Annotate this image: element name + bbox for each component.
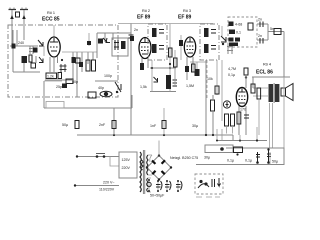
svg-text:Rö 3: Rö 3	[183, 9, 191, 13]
svg-text:1nF: 1nF	[150, 124, 157, 128]
svg-text:2n: 2n	[258, 18, 262, 22]
svg-text:2nF: 2nF	[99, 123, 106, 127]
svg-text:30µ: 30µ	[192, 124, 198, 128]
svg-text:100p: 100p	[104, 74, 112, 78]
svg-text:40p: 40p	[98, 86, 104, 90]
svg-text:0,1: 0,1	[236, 31, 241, 35]
svg-text:50µ: 50µ	[272, 160, 278, 164]
svg-text:10k: 10k	[207, 77, 213, 81]
svg-text:50µ: 50µ	[62, 123, 68, 127]
svg-text:1,5M: 1,5M	[186, 84, 194, 88]
svg-text:0,1µ: 0,1µ	[228, 73, 235, 77]
svg-text:Rö 1: Rö 1	[47, 11, 55, 15]
svg-text:240: 240	[18, 41, 24, 45]
svg-text:0,1µ: 0,1µ	[227, 159, 234, 163]
svg-text:EF 89: EF 89	[178, 15, 192, 21]
svg-text:110/220V: 110/220V	[99, 188, 115, 192]
svg-text:125V: 125V	[122, 158, 131, 162]
svg-text:220 V~: 220 V~	[103, 181, 115, 185]
svg-text:5n: 5n	[270, 27, 274, 31]
svg-text:4,7M: 4,7M	[228, 67, 236, 71]
svg-text:ECL 86: ECL 86	[256, 70, 273, 76]
svg-text:ECC 85: ECC 85	[42, 17, 60, 23]
svg-text:1,2k: 1,2k	[47, 75, 54, 79]
svg-text:Rö 4: Rö 4	[263, 63, 271, 67]
svg-text:25p: 25p	[56, 85, 62, 89]
svg-text:0,1µ: 0,1µ	[245, 159, 252, 163]
svg-text:220V: 220V	[122, 166, 131, 170]
svg-text:4-68: 4-68	[235, 23, 242, 27]
svg-text:2n: 2n	[134, 28, 138, 32]
svg-text:170: 170	[240, 108, 246, 112]
svg-text:30µ: 30µ	[204, 156, 210, 160]
svg-text:Rö 2: Rö 2	[142, 9, 150, 13]
svg-text:Netzgl. B250 C75: Netzgl. B250 C75	[170, 156, 198, 160]
svg-text:2n: 2n	[258, 34, 262, 38]
svg-text:EF 89: EF 89	[137, 15, 151, 21]
svg-text:1,5k: 1,5k	[140, 85, 147, 89]
svg-text:50+50µF: 50+50µF	[150, 194, 165, 198]
